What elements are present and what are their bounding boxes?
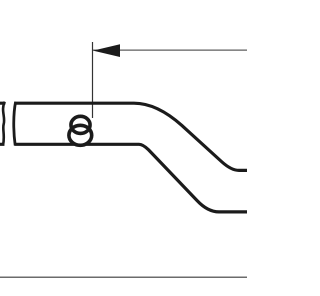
tube left end cap	[14, 102, 16, 146]
bottom separator line	[0, 276, 247, 278]
tube bottom edge	[15, 144, 248, 212]
grommet white fill	[69, 116, 92, 145]
tube break wavy line	[3, 102, 5, 146]
tube top edge	[15, 103, 248, 170]
grommet upper ring	[71, 116, 90, 133]
dimension line	[93, 49, 247, 51]
grommet lower ring	[69, 125, 92, 145]
dimension extension line	[92, 42, 94, 118]
tube break piece (left edge)	[0, 103, 5, 144]
dimension arrowhead	[93, 44, 120, 57]
